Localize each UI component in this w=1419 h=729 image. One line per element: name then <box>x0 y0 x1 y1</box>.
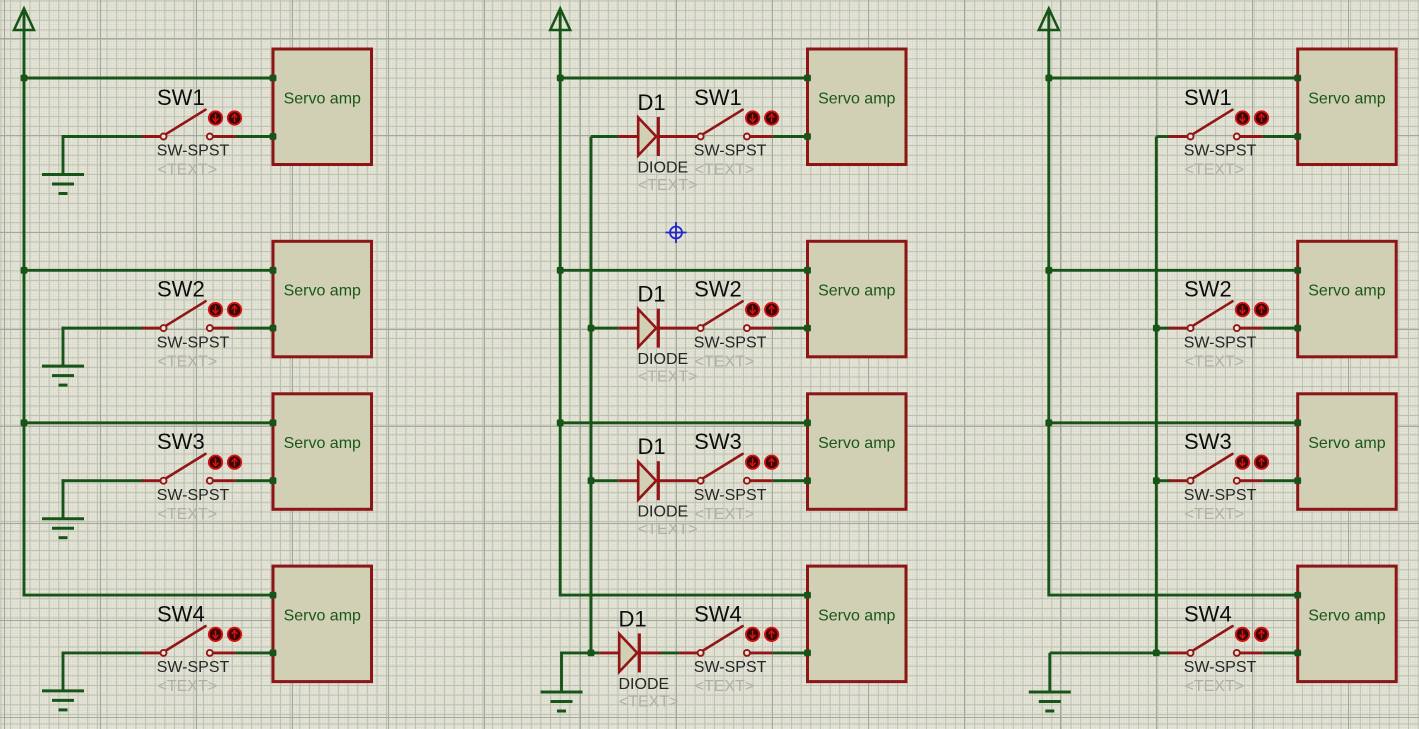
svg-text:<TEXT>: <TEXT> <box>158 162 218 179</box>
svg-text:DIODE: DIODE <box>638 160 689 177</box>
svg-text:SW-SPST: SW-SPST <box>157 659 230 676</box>
svg-text:D1: D1 <box>638 434 666 459</box>
svg-text:Servo amp: Servo amp <box>284 90 361 107</box>
svg-text:SW-SPST: SW-SPST <box>694 487 767 504</box>
svg-text:SW2: SW2 <box>694 277 742 302</box>
svg-text:SW1: SW1 <box>157 85 205 110</box>
svg-text:SW1: SW1 <box>694 85 742 110</box>
svg-text:SW3: SW3 <box>157 429 205 454</box>
svg-text:SW4: SW4 <box>694 601 742 626</box>
svg-text:<TEXT>: <TEXT> <box>158 506 218 523</box>
svg-text:Servo amp: Servo amp <box>818 608 895 625</box>
svg-text:<TEXT>: <TEXT> <box>1185 162 1245 179</box>
svg-text:SW-SPST: SW-SPST <box>1184 659 1257 676</box>
svg-text:SW3: SW3 <box>1184 429 1232 454</box>
svg-text:<TEXT>: <TEXT> <box>695 162 755 179</box>
svg-text:<TEXT>: <TEXT> <box>158 678 218 695</box>
svg-text:Servo amp: Servo amp <box>1308 435 1385 452</box>
svg-text:SW-SPST: SW-SPST <box>1184 143 1257 160</box>
svg-text:SW-SPST: SW-SPST <box>694 143 767 160</box>
svg-text:<TEXT>: <TEXT> <box>1185 353 1245 370</box>
svg-text:SW-SPST: SW-SPST <box>157 334 230 351</box>
svg-text:SW4: SW4 <box>157 601 205 626</box>
svg-text:Servo amp: Servo amp <box>1308 283 1385 300</box>
svg-text:Servo amp: Servo amp <box>284 608 361 625</box>
svg-text:SW-SPST: SW-SPST <box>1184 487 1257 504</box>
svg-text:<TEXT>: <TEXT> <box>1185 506 1245 523</box>
svg-text:Servo amp: Servo amp <box>1308 608 1385 625</box>
svg-text:Servo amp: Servo amp <box>818 90 895 107</box>
svg-text:Servo amp: Servo amp <box>1308 90 1385 107</box>
svg-text:<TEXT>: <TEXT> <box>638 369 698 386</box>
svg-text:SW4: SW4 <box>1184 601 1232 626</box>
svg-text:SW-SPST: SW-SPST <box>1184 334 1257 351</box>
svg-text:<TEXT>: <TEXT> <box>158 353 218 370</box>
svg-text:D1: D1 <box>638 282 666 307</box>
svg-text:<TEXT>: <TEXT> <box>695 353 755 370</box>
svg-text:<TEXT>: <TEXT> <box>638 521 698 538</box>
svg-text:SW-SPST: SW-SPST <box>157 143 230 160</box>
svg-text:DIODE: DIODE <box>638 504 689 521</box>
svg-text:Servo amp: Servo amp <box>818 435 895 452</box>
svg-text:<TEXT>: <TEXT> <box>695 678 755 695</box>
svg-text:Servo amp: Servo amp <box>284 435 361 452</box>
svg-text:SW1: SW1 <box>1184 85 1232 110</box>
svg-text:Servo amp: Servo amp <box>818 283 895 300</box>
svg-text:<TEXT>: <TEXT> <box>619 693 679 710</box>
svg-text:<TEXT>: <TEXT> <box>638 177 698 194</box>
svg-text:SW-SPST: SW-SPST <box>157 487 230 504</box>
svg-text:SW-SPST: SW-SPST <box>694 659 767 676</box>
svg-text:<TEXT>: <TEXT> <box>1185 678 1245 695</box>
svg-text:D1: D1 <box>638 90 666 115</box>
svg-text:SW2: SW2 <box>1184 277 1232 302</box>
svg-text:SW2: SW2 <box>157 277 205 302</box>
svg-text:D1: D1 <box>619 606 647 631</box>
svg-text:DIODE: DIODE <box>619 676 670 693</box>
svg-text:DIODE: DIODE <box>638 351 689 368</box>
svg-text:SW-SPST: SW-SPST <box>694 334 767 351</box>
svg-text:SW3: SW3 <box>694 429 742 454</box>
svg-text:Servo amp: Servo amp <box>284 283 361 300</box>
svg-text:<TEXT>: <TEXT> <box>695 506 755 523</box>
